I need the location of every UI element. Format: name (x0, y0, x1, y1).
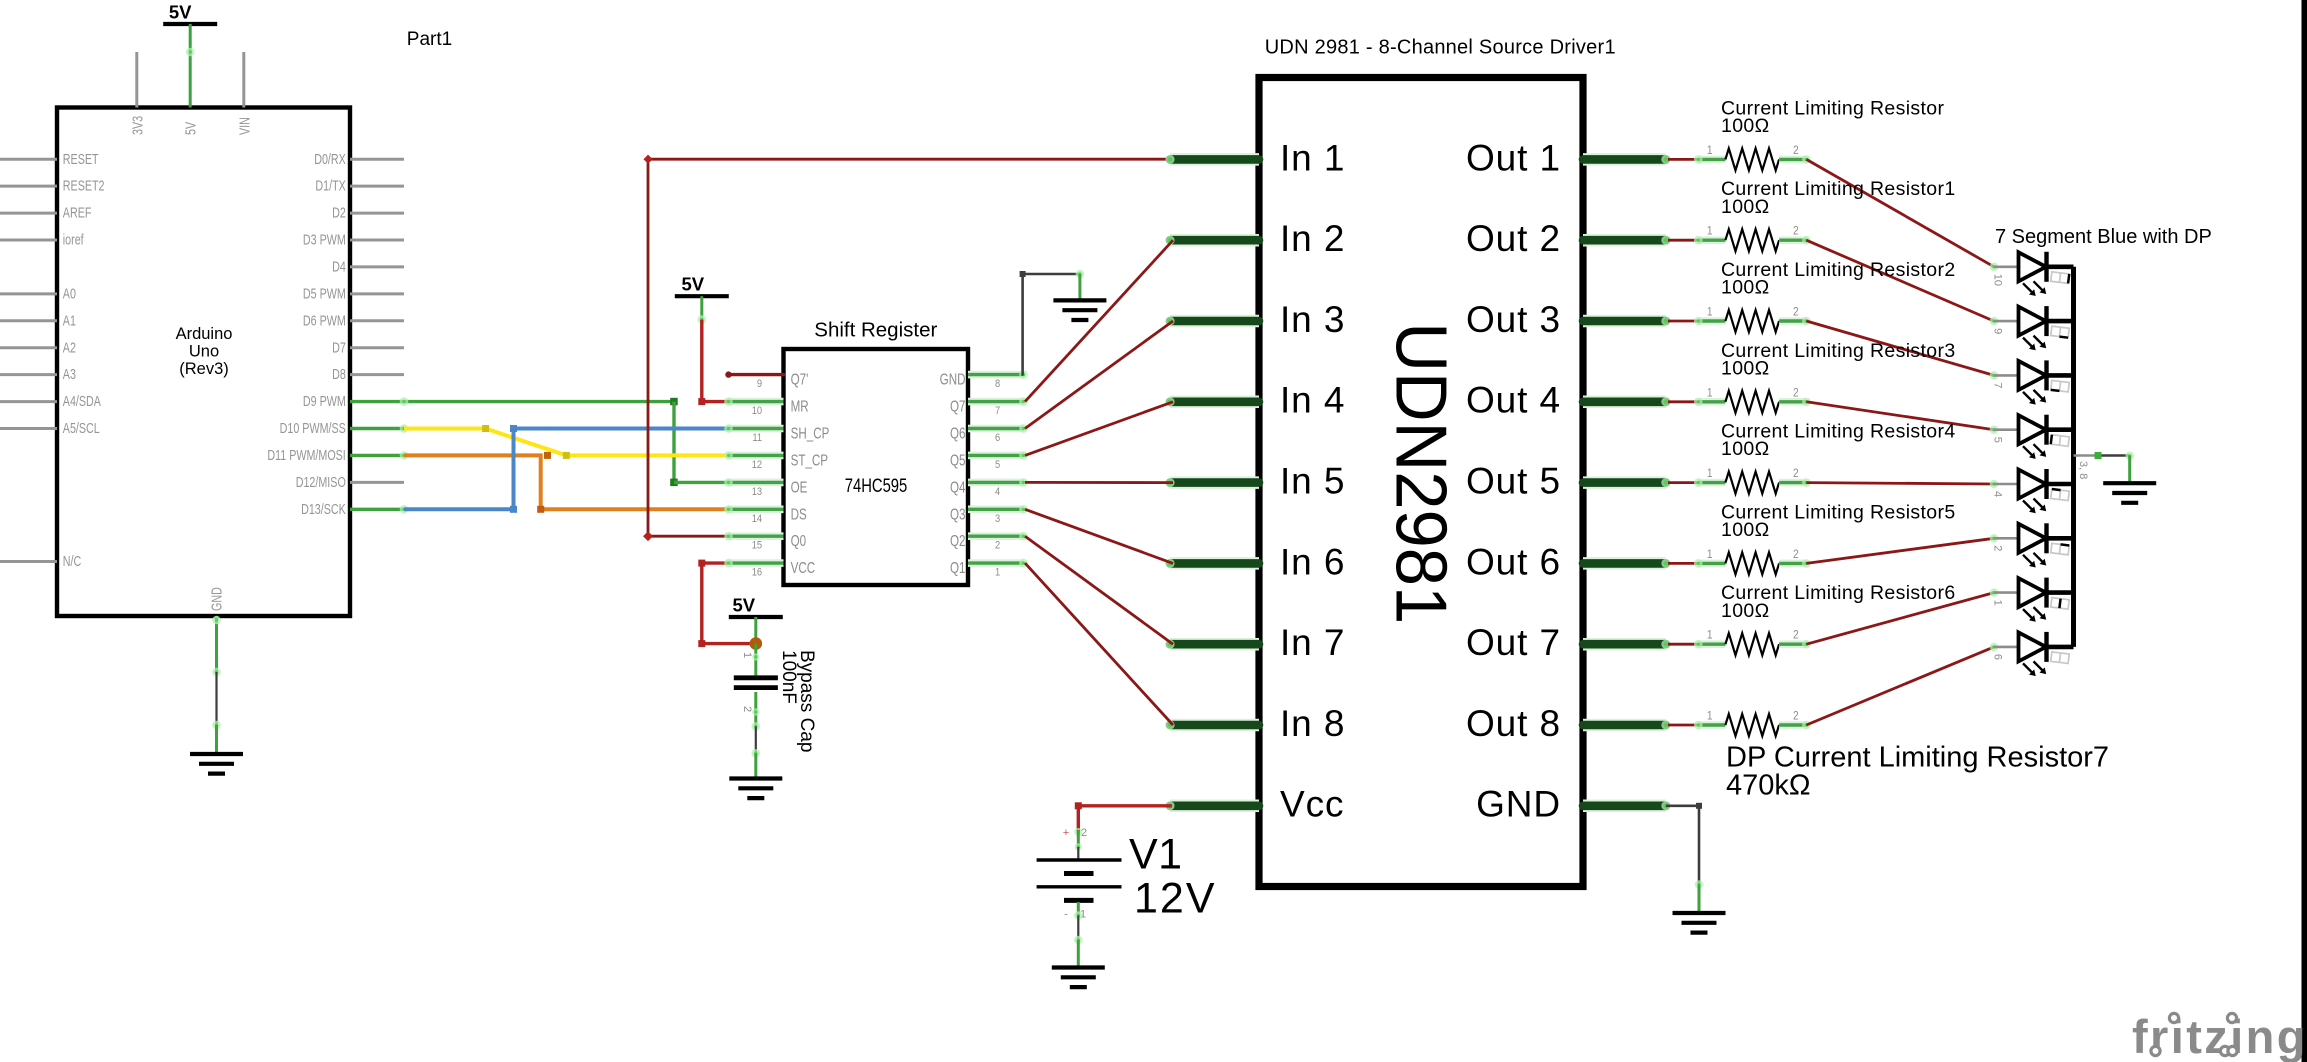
svg-text:8: 8 (995, 378, 1000, 390)
svg-text:Q3: Q3 (950, 506, 966, 523)
wire 5V to MR (red) (702, 320, 729, 402)
svg-text:10: 10 (1992, 274, 2004, 286)
LED segment 8 (pin 6) (1990, 643, 1999, 652)
ground symbol (2103, 481, 2156, 485)
svg-text:14: 14 (752, 513, 763, 525)
pin In 4 (1170, 396, 1259, 409)
svg-text:+: + (1063, 827, 1069, 839)
resistor R5 100ohm (1668, 481, 1698, 484)
ground symbol (190, 752, 243, 756)
pin D1/TX (350, 185, 404, 188)
resistor R4 100ohm (1668, 400, 1698, 403)
svg-text:OE: OE (791, 479, 808, 496)
svg-text:GND: GND (208, 587, 225, 611)
pin In 7 (1170, 638, 1259, 651)
svg-text:In 1: In 1 (1280, 137, 1345, 178)
svg-text:3V3: 3V3 (129, 116, 146, 135)
svg-text:Out 1: Out 1 (1466, 137, 1561, 178)
svg-text:D9 PWM: D9 PWM (303, 393, 346, 410)
pin OE (13) (729, 479, 784, 487)
svg-text:RESET2: RESET2 (63, 177, 105, 194)
5V supply symbol (675, 294, 729, 298)
LED segment 5 (pin 4) (1990, 480, 1999, 489)
pin In 1 (1170, 153, 1259, 166)
wire Q5 to In 4 (1025, 402, 1173, 456)
resistor R6 100ohm (1668, 562, 1698, 565)
svg-text:Q0: Q0 (791, 533, 807, 550)
pin Out 7 (1583, 638, 1666, 651)
wire R7 to LED 7 (1806, 593, 1994, 645)
pin In 2 (1170, 234, 1259, 247)
pin D6 PWM (350, 319, 404, 322)
LED segment 4 (pin 5) (1990, 425, 1999, 434)
svg-text:2: 2 (1793, 629, 1799, 642)
LED segment 7 (pin 1) (1990, 588, 1999, 597)
pin D5 PWM (350, 292, 404, 295)
pin VCC (16) (729, 559, 784, 567)
svg-text:1: 1 (1992, 600, 2004, 606)
svg-text:UDN2981: UDN2981 (1381, 322, 1462, 624)
svg-text:1: 1 (1707, 629, 1713, 642)
svg-text:2: 2 (1793, 387, 1799, 400)
shift register 74HC595 U2 (784, 349, 969, 585)
svg-text:GND: GND (1476, 784, 1561, 825)
pin In 6 (1170, 557, 1259, 570)
pin D7 (350, 346, 404, 349)
svg-text:11: 11 (752, 432, 762, 444)
svg-text:D7: D7 (332, 339, 346, 356)
pin Q5 (5) (968, 452, 1024, 460)
svg-text:5: 5 (1992, 437, 2004, 443)
resistor R3 100ohm (1668, 320, 1698, 323)
wire VCC to 5V node (red) (702, 563, 750, 644)
svg-text:DS: DS (791, 506, 807, 523)
svg-text:100Ω: 100Ω (1721, 115, 1770, 137)
svg-text:MR: MR (791, 398, 809, 415)
svg-text:GND: GND (940, 371, 966, 388)
svg-text:RESET: RESET (63, 150, 99, 167)
svg-text:1: 1 (1707, 225, 1713, 238)
svg-text:2: 2 (1793, 548, 1799, 561)
wire Q0 to In 1 (dark red) (648, 159, 1173, 536)
wire R2 to LED 2 (1806, 240, 1994, 321)
pin Out 6 (1583, 557, 1666, 570)
svg-text:D3 PWM: D3 PWM (303, 231, 346, 248)
svg-text:13: 13 (752, 486, 763, 498)
pin A3 (0, 373, 57, 376)
svg-text:3, 8: 3, 8 (2077, 461, 2089, 479)
pin Q4 (4) (968, 479, 1024, 487)
svg-text:3: 3 (995, 513, 1000, 525)
svg-text:VCC: VCC (791, 560, 816, 577)
svg-text:1: 1 (995, 567, 1000, 579)
pin Q1 (1) (968, 559, 1024, 567)
svg-text:D13/SCK: D13/SCK (301, 500, 346, 517)
resistor R7 100ohm (1668, 643, 1698, 646)
Arduino Uno module (57, 108, 350, 617)
pin AREF (0, 212, 57, 215)
pin Out 2 (1583, 234, 1666, 247)
pin RESET (0, 158, 57, 161)
svg-text:Out 6: Out 6 (1466, 541, 1561, 582)
svg-text:Arduino: Arduino (176, 325, 233, 343)
svg-text:SH_CP: SH_CP (791, 425, 830, 442)
pin Q2 (2) (968, 532, 1024, 540)
svg-text:D1/TX: D1/TX (315, 177, 346, 194)
svg-text:Shift Register: Shift Register (814, 319, 937, 342)
svg-text:UDN 2981 - 8-Channel Source Dr: UDN 2981 - 8-Channel Source Driver1 (1265, 37, 1616, 59)
pin Q3 (3) (968, 505, 1024, 513)
pin Q0 (15) (729, 532, 784, 540)
wire D11 PWM/MOSI to DS (orange) (350, 454, 404, 457)
7seg common pin 3,8 (2074, 454, 2099, 457)
wire R8 to LED 8 (1806, 647, 1994, 725)
pin SH_CP (11) (729, 425, 784, 433)
pin Out 3 (1583, 315, 1666, 328)
svg-text:7: 7 (1992, 382, 2004, 388)
wire R3 to LED 3 (1806, 321, 1994, 375)
svg-text:1: 1 (1707, 306, 1713, 319)
pin A0 (0, 292, 57, 295)
wire Q4 to In 5 (1025, 481, 1173, 484)
svg-text:A2: A2 (63, 339, 76, 356)
LED segment 3 (pin 7) (1990, 371, 1999, 380)
svg-text:Part1: Part1 (407, 29, 452, 50)
pin Out 8 (1583, 719, 1666, 732)
svg-text:Q1: Q1 (950, 560, 965, 577)
junction node (5V / VCC / cap) (750, 637, 763, 650)
pin Out 4 (1583, 396, 1666, 409)
pin A4/SDA (0, 400, 57, 403)
5V supply symbol (163, 22, 217, 26)
pin In 8 (1170, 719, 1259, 732)
pin GND (8) (968, 371, 1024, 379)
wire 5V supply to Arduino 5V pin (189, 24, 192, 108)
wire UDN GND to ground (1666, 806, 1699, 885)
svg-text:Out 4: Out 4 (1466, 380, 1561, 421)
ground symbol (1052, 965, 1105, 969)
svg-text:12: 12 (752, 459, 763, 471)
svg-text:Q6: Q6 (950, 425, 966, 442)
svg-text:In 4: In 4 (1280, 380, 1345, 421)
svg-text:ioref: ioref (63, 231, 84, 248)
svg-text:Uno: Uno (189, 342, 219, 360)
svg-text:100Ω: 100Ω (1721, 357, 1770, 379)
pin DS (14) (729, 505, 784, 513)
svg-text:D12/MISO: D12/MISO (296, 473, 346, 490)
svg-text:470kΩ: 470kΩ (1726, 770, 1811, 802)
svg-text:2: 2 (1992, 545, 2004, 551)
wire Q6 to In 3 (1025, 321, 1173, 429)
svg-text:V1: V1 (1129, 830, 1183, 878)
wire D13/SCK to SH_CP (blue) (350, 508, 404, 511)
svg-text:9: 9 (757, 378, 762, 390)
pin ST_CP (12) (729, 452, 784, 460)
svg-text:6: 6 (1992, 654, 2004, 660)
svg-text:A3: A3 (63, 366, 76, 383)
svg-text:Out 7: Out 7 (1466, 622, 1561, 663)
svg-text:1: 1 (1707, 467, 1713, 480)
svg-text:1: 1 (1707, 710, 1713, 723)
svg-text:Q4: Q4 (950, 479, 966, 496)
svg-text:D10 PWM/SS: D10 PWM/SS (280, 419, 346, 436)
svg-text:2: 2 (1793, 710, 1799, 723)
svg-text:In 8: In 8 (1280, 703, 1345, 744)
wire D10 PWM/SS to ST_CP (yellow) (350, 427, 404, 430)
svg-text:2: 2 (995, 540, 1000, 552)
svg-text:D5 PWM: D5 PWM (303, 285, 346, 302)
svg-text:5V: 5V (732, 595, 755, 616)
svg-text:12V: 12V (1134, 875, 1217, 923)
svg-text:Q7: Q7 (950, 398, 965, 415)
ground symbol (1053, 298, 1106, 302)
pin MR (10) (729, 398, 784, 406)
pin Vcc (UDN) (1170, 800, 1259, 813)
wire R6 to LED 6 (1806, 538, 1994, 563)
pin A1 (0, 319, 57, 322)
wire Vcc to battery + (red) (1078, 806, 1172, 832)
pin N/C (0, 560, 57, 563)
pin In 5 (1170, 476, 1259, 489)
svg-text:In 6: In 6 (1280, 541, 1345, 582)
pin D8 (350, 373, 404, 376)
svg-text:Out 3: Out 3 (1466, 299, 1561, 340)
svg-text:In 3: In 3 (1280, 299, 1345, 340)
svg-text:5V: 5V (169, 2, 192, 23)
pin ioref (0, 239, 57, 242)
svg-text:5: 5 (995, 459, 1000, 471)
svg-text:D11 PWM/MOSI: D11 PWM/MOSI (267, 446, 345, 463)
wire Q7 to In 2 (1025, 240, 1173, 401)
svg-text:15: 15 (752, 540, 763, 552)
svg-text:2: 2 (1793, 225, 1799, 238)
pin Out 1 (1583, 153, 1666, 166)
wire Q2 to In 7 (1025, 536, 1173, 644)
svg-text:Q2: Q2 (950, 533, 965, 550)
svg-text:100Ω: 100Ω (1721, 277, 1770, 299)
svg-text:4: 4 (1992, 491, 2004, 497)
svg-text:In 5: In 5 (1280, 461, 1345, 502)
LED segment 6 (pin 2) (1990, 534, 1999, 543)
svg-text:6: 6 (995, 432, 1000, 444)
svg-text:DP Current Limiting Resistor7: DP Current Limiting Resistor7 (1726, 742, 2109, 774)
svg-text:2: 2 (1793, 467, 1799, 480)
pin Q7 (7) (968, 398, 1024, 406)
svg-text:Q5: Q5 (950, 452, 966, 469)
svg-text:D8: D8 (332, 366, 346, 383)
svg-text:100Ω: 100Ω (1721, 600, 1770, 622)
resistor R2 100ohm (1668, 239, 1698, 242)
UDN2981 8-channel source driver U1 (1259, 78, 1583, 887)
pin D4 (350, 265, 404, 268)
svg-text:2: 2 (1793, 306, 1799, 319)
svg-text:D4: D4 (332, 258, 346, 275)
svg-text:In 7: In 7 (1280, 622, 1345, 663)
svg-text:In 2: In 2 (1280, 218, 1345, 259)
svg-text:Q7': Q7' (791, 371, 809, 388)
svg-text:1: 1 (1707, 548, 1713, 561)
svg-text:VIN: VIN (236, 117, 253, 135)
5V supply symbol (729, 615, 783, 619)
svg-text:-: - (1064, 909, 1068, 921)
7seg common bus (2071, 267, 2076, 647)
wire D9 PWM to OE (green) (350, 400, 674, 403)
pin In 3 (1170, 315, 1259, 328)
svg-text:A1: A1 (63, 312, 76, 329)
pin Out 5 (1583, 476, 1666, 489)
svg-text:ST_CP: ST_CP (791, 452, 828, 469)
svg-text:100Ω: 100Ω (1721, 519, 1770, 541)
svg-text:Vcc: Vcc (1280, 784, 1344, 825)
svg-text:A4/SDA: A4/SDA (63, 393, 102, 410)
pin Q6 (6) (968, 425, 1024, 433)
pin D3 PWM (350, 239, 404, 242)
resistor R8 470k (DP) (1668, 724, 1698, 727)
svg-text:A5/SCL: A5/SCL (63, 419, 100, 436)
wire battery - to ground (1077, 902, 1080, 916)
svg-text:D6 PWM: D6 PWM (303, 312, 346, 329)
wire R1 to LED 1 (1806, 159, 1994, 266)
svg-text:2: 2 (1081, 827, 1087, 839)
svg-text:100nF: 100nF (778, 650, 799, 704)
svg-text:(Rev3): (Rev3) (179, 360, 229, 378)
pin 3V3 (135, 52, 138, 108)
svg-text:16: 16 (752, 567, 763, 579)
ground symbol (1673, 911, 1726, 915)
svg-text:A0: A0 (63, 285, 76, 302)
svg-text:100Ω: 100Ω (1721, 438, 1770, 460)
pin D2 (350, 212, 404, 215)
svg-text:1: 1 (1707, 387, 1713, 400)
svg-text:10: 10 (752, 405, 763, 417)
svg-text:Out 2: Out 2 (1466, 218, 1561, 259)
svg-text:2: 2 (1793, 144, 1799, 157)
ground symbol (729, 776, 782, 780)
svg-text:Out 5: Out 5 (1466, 461, 1561, 502)
wire Q1 to In 8 (1025, 563, 1173, 725)
svg-text:N/C: N/C (63, 552, 81, 569)
pin A5/SCL (0, 427, 57, 430)
svg-text:7 Segment Blue with DP: 7 Segment Blue with DP (1995, 226, 2212, 248)
pin GND (UDN) (1583, 800, 1666, 813)
window edge strip (2302, 0, 2307, 1062)
pin VIN (242, 52, 245, 108)
wire Arduino GND to ground (215, 616, 218, 672)
svg-text:D0/RX: D0/RX (314, 150, 346, 167)
svg-text:9: 9 (1992, 328, 2004, 334)
wire SR GND to ground (1023, 274, 1080, 375)
LED segment 1 (pin 10) (1990, 263, 1999, 272)
wire R4 to LED 4 (1806, 402, 1994, 430)
pin RESET2 (0, 185, 57, 188)
svg-text:1: 1 (1707, 144, 1713, 157)
svg-text:5V: 5V (681, 274, 704, 295)
svg-text:5V: 5V (182, 121, 199, 135)
pin D12/MISO (350, 481, 404, 484)
wire R5 to LED 5 (1806, 483, 1994, 484)
LED segment 2 (pin 9) (1990, 317, 1999, 326)
svg-text:100Ω: 100Ω (1721, 196, 1770, 218)
svg-text:D2: D2 (332, 204, 346, 221)
svg-text:74HC595: 74HC595 (845, 475, 908, 496)
resistor R1 100ohm (1668, 158, 1698, 161)
pin Q7' (9) (729, 373, 784, 376)
wire Q3 to In 6 (1025, 509, 1173, 563)
svg-text:4: 4 (995, 486, 1000, 498)
pin D0/RX (350, 158, 404, 161)
svg-text:7: 7 (995, 405, 1000, 417)
pin A2 (0, 346, 57, 349)
svg-text:1: 1 (741, 652, 753, 658)
svg-text:AREF: AREF (63, 204, 92, 221)
svg-text:Out 8: Out 8 (1466, 703, 1561, 744)
svg-text:2: 2 (741, 706, 753, 712)
